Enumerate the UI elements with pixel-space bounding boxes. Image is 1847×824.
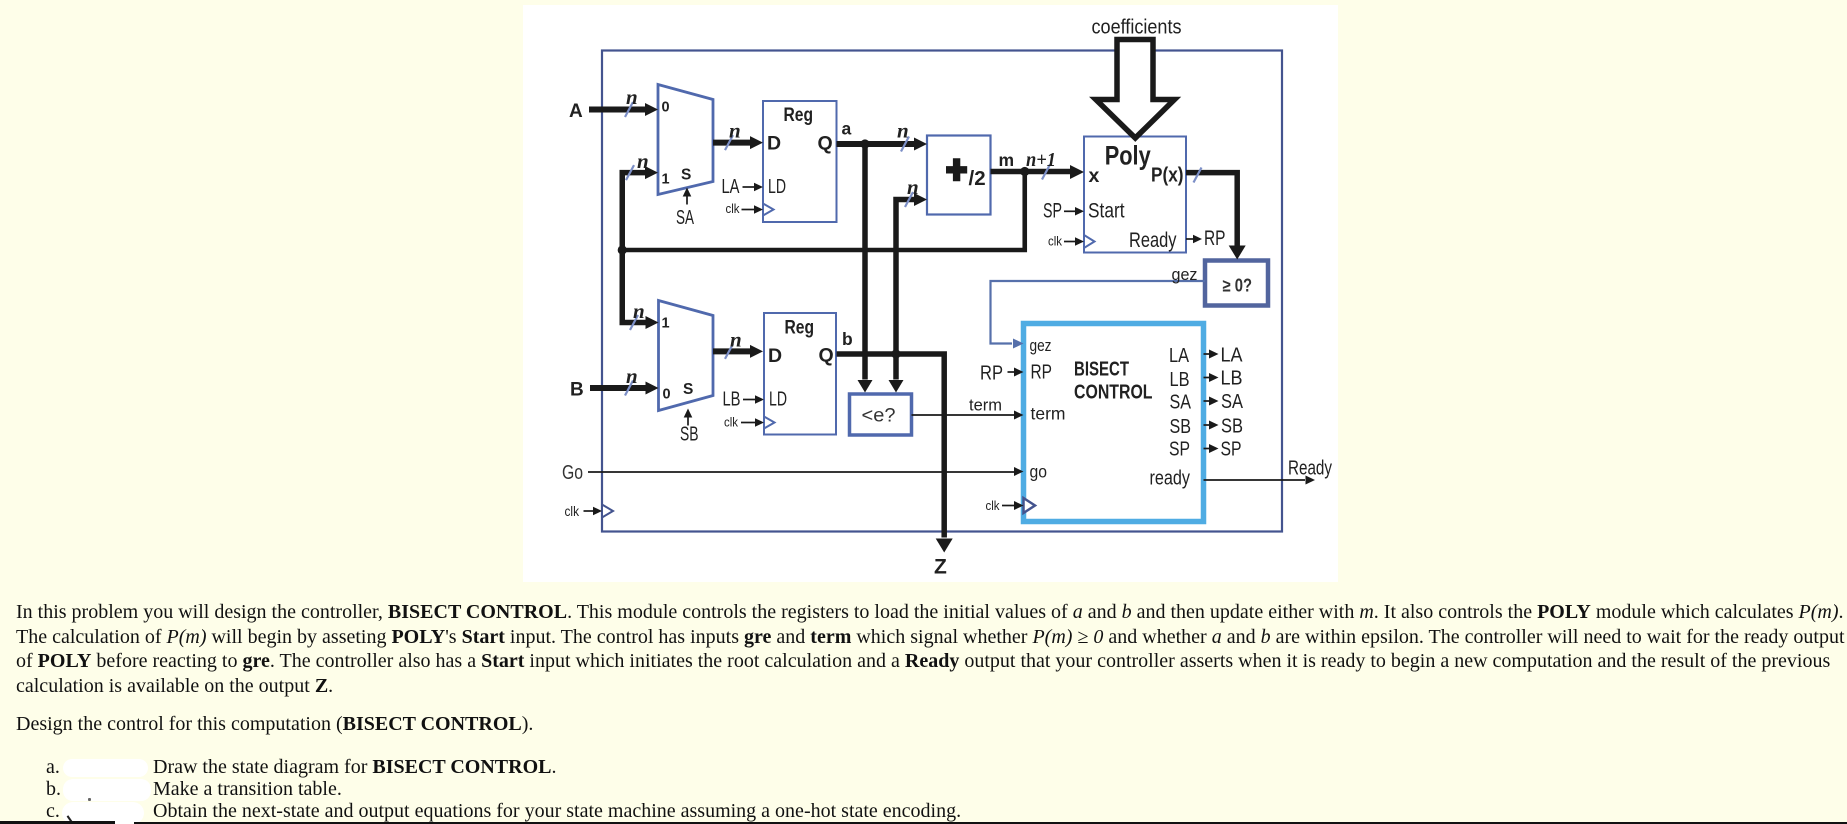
slash mux M2 in1: [630, 315, 638, 330]
svg-text:0: 0: [662, 100, 670, 116]
arrowhead Z output: [936, 539, 953, 553]
wire clk to RegB: [741, 422, 755, 424]
svg-text:ready: ready: [1150, 468, 1191, 490]
bottom black rule right: [134, 822, 1847, 824]
clk triangle RegA: [763, 204, 774, 216]
slash P(x): [1194, 168, 1202, 183]
svg-text:clk: clk: [726, 201, 740, 216]
svg-text:SB: SB: [680, 423, 699, 446]
arrowhead clk into border: [593, 507, 602, 516]
svg-text:RP: RP: [980, 363, 1003, 385]
svg-text:n: n: [907, 175, 919, 199]
svg-text:Ready: Ready: [1288, 457, 1333, 480]
svg-text:gez: gez: [1030, 336, 1052, 355]
arrowhead B into mux M2 in0: [646, 382, 659, 395]
arrowhead clk into Poly: [1075, 237, 1084, 245]
svg-text:SB: SB: [1170, 416, 1192, 438]
paragraph problem description: [16, 600, 1845, 699]
slash b to adder: [905, 192, 913, 207]
wire a branch down to <e?: [862, 144, 868, 380]
wire b branch to adder and <e?: [896, 200, 917, 380]
slash mux M1 out: [725, 135, 733, 150]
bottom black bar left: [0, 821, 115, 824]
arrowhead Ready output: [1306, 476, 1316, 485]
arrowhead SA output: [1209, 397, 1219, 406]
svg-text:Ready: Ready: [1129, 228, 1177, 252]
wire mux M1/M2 select-1 inputs from m-bus: [622, 173, 647, 323]
svg-text:S: S: [681, 167, 691, 184]
white-out blob row a: [63, 759, 148, 777]
list item a: [46, 756, 60, 779]
svg-text:/2: /2: [969, 167, 986, 190]
register RegB: [764, 313, 836, 435]
BISECT CONTROL block: [1024, 324, 1204, 522]
svg-text:clk: clk: [1048, 234, 1062, 249]
svg-text:LB: LB: [1170, 369, 1190, 391]
white-out blob row b: [63, 779, 151, 801]
wire A input: [589, 107, 647, 113]
svg-text:BISECT: BISECT: [1074, 358, 1129, 381]
svg-text:LB: LB: [1221, 368, 1243, 390]
node a junction: [860, 139, 869, 148]
wire SA select: [686, 196, 688, 205]
svg-text:SA: SA: [1221, 391, 1244, 413]
node m junction: [1020, 167, 1029, 176]
arrowhead into RegB D: [750, 345, 763, 358]
svg-text:n: n: [730, 328, 742, 352]
arrowhead clk into BISECT: [1014, 501, 1024, 510]
svg-text:SP: SP: [1221, 439, 1242, 461]
arrowhead LA output: [1209, 350, 1219, 359]
svg-text:n: n: [633, 299, 645, 323]
svg-text:LD: LD: [768, 176, 786, 198]
arrowhead a into adder: [914, 138, 927, 151]
svg-text:clk: clk: [565, 504, 580, 519]
svg-text:LA: LA: [1221, 345, 1244, 367]
svg-text:gez: gez: [1172, 266, 1198, 284]
register RegA: [763, 101, 837, 222]
pen mark after c: [67, 815, 74, 824]
svg-text:CONTROL: CONTROL: [1074, 381, 1153, 404]
arrowhead into mux M1 in1: [645, 166, 658, 179]
svg-text:a: a: [842, 119, 852, 139]
arrowhead LB output: [1209, 373, 1219, 382]
Poly module: [1084, 137, 1186, 253]
wire mux M1 to RegA D: [713, 140, 752, 146]
svg-text:A: A: [569, 101, 583, 122]
white diagram panel: [523, 5, 1338, 582]
svg-text:clk: clk: [986, 498, 1000, 513]
slash mux M2 out: [725, 344, 733, 359]
svg-text:n: n: [637, 149, 649, 173]
arrowhead SB into mux M2: [684, 409, 693, 418]
arrowhead gez into BISECT: [1013, 339, 1024, 349]
clk triangle Poly: [1084, 235, 1095, 248]
arrowhead SB output: [1209, 421, 1219, 430]
svg-text:LD: LD: [769, 389, 787, 411]
svg-text:0: 0: [663, 387, 671, 403]
svg-text:Reg: Reg: [785, 317, 815, 339]
wire Go input to go: [588, 471, 1014, 473]
svg-text:RP: RP: [1031, 362, 1053, 384]
wire SP to Poly Start: [1064, 210, 1075, 212]
wire RegA Q output (a): [837, 141, 918, 147]
arrowhead b into adder: [914, 193, 927, 206]
svg-text:Go: Go: [562, 461, 583, 484]
wire BISECT SA output: [1204, 400, 1210, 402]
wire LA to RegA LD: [743, 186, 755, 188]
wire BISECT SB output: [1204, 424, 1210, 426]
svg-text:RP: RP: [1204, 226, 1226, 250]
clk triangle outer border: [602, 505, 613, 518]
svg-text:SB: SB: [1221, 416, 1243, 438]
arrowhead term into BISECT: [1014, 411, 1024, 420]
white-out blob row c: [62, 802, 144, 824]
svg-text:clk: clk: [724, 415, 738, 430]
wire clk to Poly: [1064, 241, 1075, 243]
mux M1 (A path 2:1 mux): [658, 85, 713, 195]
arrowhead go into BISECT: [1014, 467, 1024, 476]
adder plus symbol: [946, 158, 967, 181]
svg-text:SA: SA: [1170, 392, 1192, 414]
comparator <e?: [850, 394, 912, 435]
arrowhead m into Poly x: [1070, 165, 1084, 179]
svg-text:Start: Start: [1088, 199, 1125, 223]
wire Poly P(x) output: [1186, 173, 1237, 247]
arrowhead RP into BISECT: [1014, 368, 1024, 377]
adder +/2: [927, 136, 991, 215]
slash a to adder: [901, 137, 909, 152]
comparator >=0?: [1205, 261, 1268, 306]
svg-text:SA: SA: [676, 206, 694, 229]
wire RP to BISECT: [1008, 371, 1015, 373]
pen mark row b: [88, 798, 91, 801]
arrowhead P(x) into >=0?: [1229, 246, 1246, 260]
wire Poly Ready to RP: [1186, 238, 1193, 240]
svg-text:coefficients: coefficients: [1092, 16, 1182, 39]
svg-text:b: b: [842, 329, 853, 349]
svg-text:<e?: <e?: [862, 405, 896, 427]
svg-text:D: D: [767, 133, 781, 155]
svg-text:Z: Z: [934, 556, 947, 579]
arrowhead b into <e?: [889, 380, 904, 393]
slash A bus: [625, 102, 633, 117]
mux M2 (B path 2:1 mux): [659, 301, 714, 411]
wire clk to RegA: [742, 209, 755, 211]
arrowhead LB into RegB LD: [755, 395, 764, 403]
svg-text:1: 1: [662, 316, 670, 332]
wire RegB Q output (b) to Z: [837, 354, 945, 538]
svg-text:1: 1: [662, 172, 670, 188]
node m-bus junction: [618, 245, 627, 254]
svg-text:Poly: Poly: [1105, 141, 1151, 171]
wire clk to BISECT: [1002, 505, 1014, 507]
svg-text:≥ 0?: ≥ 0?: [1223, 276, 1253, 296]
wire ready to Ready output: [1204, 479, 1306, 481]
svg-text:Q: Q: [818, 133, 833, 155]
arrowhead Ready to RP: [1193, 235, 1202, 244]
svg-text:LA: LA: [722, 176, 740, 198]
svg-text:D: D: [768, 345, 782, 367]
svg-text:SP: SP: [1043, 199, 1062, 223]
clk triangle BISECT CONTROL: [1024, 498, 1036, 513]
wire adder m output to Poly x: [991, 169, 1074, 175]
arrowhead clk into RegA: [754, 205, 763, 213]
svg-text:go: go: [1030, 462, 1048, 482]
svg-text:m: m: [999, 150, 1015, 170]
arrowhead SP output: [1209, 444, 1219, 453]
wire gez from >=0? to BISECT: [991, 281, 1206, 344]
slash B bus: [625, 381, 633, 396]
arrowhead A into mux M1 in0: [645, 103, 658, 116]
node b junction: [891, 349, 900, 358]
svg-text:LA: LA: [1169, 345, 1190, 367]
wire BISECT LA output: [1204, 353, 1210, 355]
arrowhead SA into mux M1: [683, 188, 692, 197]
slash mux M1 in1: [626, 165, 634, 180]
svg-text:n: n: [729, 119, 741, 143]
svg-text:n: n: [626, 85, 638, 109]
list item b: [46, 778, 61, 801]
coefficients input arrow: [1096, 40, 1175, 139]
arrowhead into RegA D: [750, 136, 763, 149]
arrowhead a into <e?: [858, 380, 873, 393]
wire B input: [590, 385, 647, 391]
svg-text:P(x): P(x): [1151, 165, 1184, 187]
arrowhead LA into RegA LD: [754, 183, 763, 191]
svg-text:n: n: [626, 364, 638, 388]
arrowhead into mux M2 in1: [646, 316, 659, 329]
wire clk to outer border: [584, 510, 594, 512]
svg-text:LB: LB: [723, 389, 741, 411]
wire BISECT LB output: [1204, 377, 1210, 379]
wire term from <e? to BISECT: [912, 414, 1015, 416]
svg-text:n: n: [897, 119, 909, 143]
svg-text:Q: Q: [819, 345, 834, 367]
wire LB to RegB LD: [743, 399, 755, 401]
arrowhead clk into RegB: [755, 418, 764, 426]
wire mux M2 to RegB D: [713, 348, 752, 354]
svg-text:term: term: [1031, 404, 1066, 424]
wire BISECT SP output: [1204, 448, 1210, 450]
paragraph design prompt: [16, 713, 533, 736]
slash m to Poly: [1042, 165, 1050, 180]
svg-text:n+1: n+1: [1026, 149, 1056, 171]
svg-text:S: S: [683, 381, 693, 398]
arrowhead SP into Poly Start: [1075, 207, 1084, 216]
svg-text:B: B: [570, 380, 584, 401]
clk triangle RegB: [764, 417, 775, 429]
wire SB select: [687, 417, 689, 426]
wire m feedback bus: [622, 172, 1025, 251]
outer system border: [602, 51, 1282, 532]
svg-text:x: x: [1089, 165, 1100, 187]
svg-text:term: term: [969, 396, 1002, 415]
svg-text:SP: SP: [1169, 439, 1190, 461]
svg-text:Reg: Reg: [784, 104, 814, 126]
list item c: [46, 800, 60, 823]
